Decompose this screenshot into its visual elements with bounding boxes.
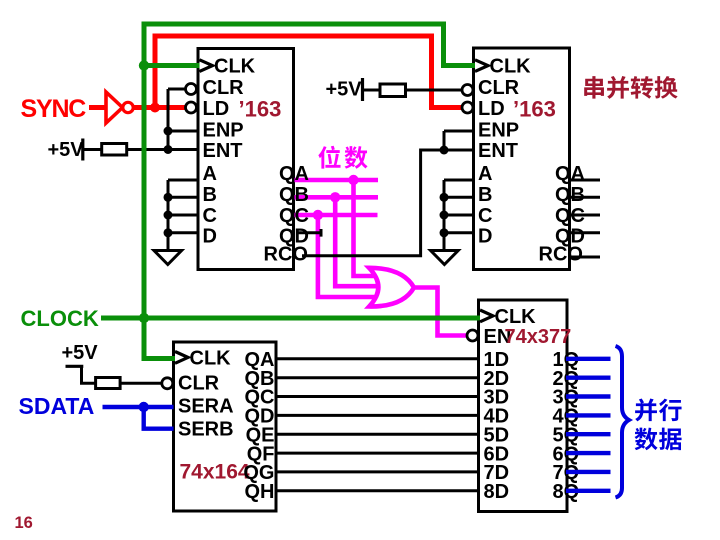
U4 pin 4D xyxy=(484,406,510,428)
wire U3 QF to U4 6D xyxy=(276,452,479,455)
wire U1 QD stub with tick xyxy=(296,229,321,237)
svg-text:QA: QA xyxy=(279,163,309,185)
U2 CLK wedge xyxy=(475,60,488,72)
node SYNC junction xyxy=(150,103,160,113)
U3 CLR bubble xyxy=(162,378,173,389)
wire U2 QD stub xyxy=(570,231,601,234)
wire U1 QB to OR gate xyxy=(295,197,381,286)
node U1 D junction xyxy=(164,228,173,237)
svg-text:CLR: CLR xyxy=(178,373,220,395)
wire R3 to U3 CLR xyxy=(120,382,162,385)
svg-text:QC: QC xyxy=(279,205,309,227)
wire SDATA branch to U3 SERB xyxy=(144,407,174,429)
power +5V tick 3 xyxy=(66,365,84,368)
U1 pin A xyxy=(203,163,217,185)
svg-text:CLK: CLK xyxy=(495,306,537,328)
U2 LD bubble xyxy=(462,102,473,113)
U4 pin 6Q label xyxy=(553,443,580,465)
svg-text:8D: 8D xyxy=(484,481,510,503)
wire R2 to U2 CLR xyxy=(406,89,463,92)
label +5V 1 xyxy=(48,139,85,161)
wire CLOCK drop to U3 CLK xyxy=(144,318,177,359)
svg-text:B: B xyxy=(478,184,492,206)
wire U2 QB stub xyxy=(570,196,601,199)
node U2 ENT junction xyxy=(440,146,449,155)
power +5V tick 1 xyxy=(81,139,84,161)
resistor R1 xyxy=(102,144,127,156)
U4 pin 2Q label xyxy=(553,368,580,390)
U2 pin QA xyxy=(555,163,585,185)
svg-text:SERA: SERA xyxy=(178,395,234,417)
resistor R3 xyxy=(96,378,121,389)
svg-text:LD: LD xyxy=(478,98,505,120)
wire U1 CLR to ENT vertical xyxy=(168,89,186,150)
U3 pin QD xyxy=(245,406,275,428)
U4 pin 1D xyxy=(484,349,510,371)
wire U3 QE to U4 5D xyxy=(276,433,479,436)
svg-text:16: 16 xyxy=(15,514,33,532)
U4 pin 3D xyxy=(484,387,510,409)
label SDATA xyxy=(19,393,95,419)
wire U4 4Q output xyxy=(566,413,611,417)
U4 pin 7Q label xyxy=(553,462,580,484)
node U1 C junction xyxy=(164,211,173,220)
svg-text:QB: QB xyxy=(555,184,585,206)
or-gate G1 xyxy=(369,268,414,307)
svg-text:ENP: ENP xyxy=(478,119,519,141)
wire +5V to resistor R2 xyxy=(363,89,381,92)
node CLOCK junction at U1 CLK xyxy=(139,60,149,70)
U2 pin C xyxy=(478,205,492,227)
wire +5V down to resistor R3 xyxy=(82,366,96,383)
U4 pin 7D xyxy=(484,462,510,484)
svg-text:ENT: ENT xyxy=(203,140,243,162)
U3 pin QE xyxy=(246,424,275,446)
U3 pin QF xyxy=(247,443,275,465)
U2 pin ENP xyxy=(478,119,519,141)
wire +5V to resistor R1 xyxy=(83,148,102,151)
wire U4 5Q output xyxy=(566,432,611,436)
U1 pin ENP xyxy=(203,119,244,141)
svg-text:74x377: 74x377 xyxy=(505,326,572,348)
svg-text:SDATA: SDATA xyxy=(19,393,95,419)
wire U4 1Q output xyxy=(566,357,611,361)
U2 pin QD xyxy=(555,225,585,247)
inverter U5 triangle xyxy=(106,92,123,123)
U1 value '163 xyxy=(239,96,282,121)
wire U1 QA to OR gate xyxy=(295,180,379,276)
register U4 74x377 box xyxy=(479,300,568,512)
wire U1 ENP stub xyxy=(168,130,198,133)
label chuanbingzhuanhuan serial-parallel xyxy=(584,76,677,99)
ground symbol 1 xyxy=(154,251,182,265)
U2 pin RCO xyxy=(539,244,583,266)
wire SYNC to U1 LD xyxy=(133,105,186,110)
U1 CLK wedge xyxy=(200,60,213,72)
label bingxing parallel xyxy=(635,398,681,421)
wire U1 RCO to U2 ENT xyxy=(302,150,474,256)
svg-text:SYNC: SYNC xyxy=(21,95,87,123)
wire U4 3Q output xyxy=(566,394,611,398)
U3 pin QA xyxy=(245,349,275,371)
wire U3 QD to U4 4D xyxy=(276,414,479,417)
brace parallel data xyxy=(616,346,630,498)
U1 pin D xyxy=(203,225,217,247)
U4 pin 4Q label xyxy=(553,406,580,428)
svg-text:QC: QC xyxy=(555,205,585,227)
label +5V 2 xyxy=(326,79,363,101)
label shuju data xyxy=(635,428,682,451)
node U2 B junction xyxy=(440,193,449,202)
label SYNC xyxy=(21,95,87,123)
U1 pin C xyxy=(203,205,217,227)
wire SDATA to U3 SERA xyxy=(103,405,174,409)
U2 CLR bubble xyxy=(462,85,473,96)
U4 pin 2D xyxy=(484,368,510,390)
wire U1 QC to OR gate xyxy=(295,215,378,297)
svg-text:D: D xyxy=(203,225,217,247)
power +5V tick 2 xyxy=(361,78,364,101)
U4 value 74x377 xyxy=(505,326,572,348)
resistor R2 xyxy=(380,84,406,97)
wire U4 7Q output xyxy=(566,470,611,474)
wire SYNC lead xyxy=(89,105,106,110)
label +5V 3 xyxy=(62,342,99,364)
U3 pin SERA xyxy=(178,395,234,417)
U3 value 74x164 xyxy=(180,461,250,484)
node U1 ENP junction xyxy=(164,127,173,136)
wire U2 ABCD vertical and stubs xyxy=(444,180,474,251)
U2 pin ENT xyxy=(478,140,518,162)
U1 pin QD xyxy=(279,225,309,247)
wire CLOCK loop to U2 CLK xyxy=(144,24,477,318)
U4 pin 5D xyxy=(484,424,510,446)
wire U3 QC to U4 3D xyxy=(276,395,479,398)
svg-text:’163: ’163 xyxy=(513,96,556,121)
node CLOCK junction at rail xyxy=(139,313,149,323)
node QB junction xyxy=(330,192,340,202)
U1 CLR bubble xyxy=(186,84,197,95)
U1 pin CLR xyxy=(203,77,245,99)
U1 pin LD xyxy=(203,98,230,120)
label CLOCK xyxy=(21,306,99,331)
svg-text:QA: QA xyxy=(555,163,585,185)
svg-text:RCO: RCO xyxy=(264,244,308,266)
wire U3 QB to U4 2D xyxy=(276,376,479,379)
svg-text:’163: ’163 xyxy=(239,96,282,121)
svg-text:ENP: ENP xyxy=(203,119,244,141)
U2 pin CLR xyxy=(478,77,520,99)
node U2 C junction xyxy=(440,211,449,220)
node U1 B junction xyxy=(164,193,173,202)
svg-text:A: A xyxy=(478,163,492,185)
wire U2 QA stub xyxy=(570,179,601,182)
U2 pin B xyxy=(478,184,492,206)
wire U3 QA to U4 1D xyxy=(276,357,479,360)
U3 pin QB xyxy=(245,368,275,390)
label weishu bit count xyxy=(318,146,367,169)
wire U4 2Q output xyxy=(566,376,611,380)
svg-text:+5V: +5V xyxy=(48,139,85,161)
svg-text:ENT: ENT xyxy=(478,140,518,162)
wire U2 QC stub xyxy=(570,214,601,217)
svg-text:QB: QB xyxy=(279,184,309,206)
U2 pin QC xyxy=(555,205,585,227)
svg-text:CLK: CLK xyxy=(214,56,256,78)
svg-text:SERB: SERB xyxy=(178,418,234,440)
U4 CLK wedge xyxy=(480,310,493,322)
U1 pin CLK xyxy=(214,56,256,78)
U2 pin D xyxy=(478,225,492,247)
svg-text:C: C xyxy=(203,205,217,227)
wire U4 8Q output xyxy=(566,489,611,493)
svg-text:LD: LD xyxy=(203,98,230,120)
wire G1 output to U4 EN xyxy=(414,288,467,336)
svg-text:CLK: CLK xyxy=(190,348,232,370)
counter U1 74x163 box xyxy=(198,49,294,270)
wire U1 ABCD vertical and stubs xyxy=(168,180,198,251)
svg-text:CLOCK: CLOCK xyxy=(21,306,99,331)
svg-text:74x164: 74x164 xyxy=(180,461,250,484)
wire U2 RCO stub xyxy=(570,256,601,259)
U1 pin QB xyxy=(279,184,309,206)
U1 pin B xyxy=(203,184,217,206)
U3 pin CLR xyxy=(178,373,220,395)
svg-text:C: C xyxy=(478,205,492,227)
svg-text:+5V: +5V xyxy=(326,79,363,101)
ground symbol 2 xyxy=(431,251,459,265)
node QC junction xyxy=(313,210,323,220)
U3 pin CLK xyxy=(190,348,232,370)
svg-text:D: D xyxy=(478,225,492,247)
svg-text:QH: QH xyxy=(245,481,275,503)
svg-text:CLK: CLK xyxy=(490,56,532,78)
U4 pin 5Q label xyxy=(553,424,580,446)
node U2 D junction xyxy=(440,228,449,237)
U1 pin QC xyxy=(279,205,309,227)
U4 pin EN xyxy=(484,326,512,348)
U1 pin RCO xyxy=(264,244,308,266)
label page 16 xyxy=(15,514,33,532)
wire SYNC loop to U2 LD xyxy=(155,36,462,108)
U2 pin LD xyxy=(478,98,505,120)
U3 pin QH xyxy=(245,481,275,503)
svg-text:A: A xyxy=(203,163,217,185)
U3 CLK wedge xyxy=(175,352,188,364)
U3 pin QG xyxy=(243,462,274,484)
U4 pin CLK xyxy=(495,306,537,328)
U4 pin 3Q label xyxy=(553,387,580,409)
U3 pin QC xyxy=(245,387,275,409)
U4 EN bubble xyxy=(467,330,478,341)
U4 pin 6D xyxy=(484,443,510,465)
node SDATA junction xyxy=(139,402,149,412)
U2 pin QB xyxy=(555,184,585,206)
inverter U5 bubble xyxy=(123,102,133,112)
wire CLOCK rail xyxy=(101,316,481,321)
U1 pin ENT xyxy=(203,140,243,162)
wire U3 QH to U4 8D xyxy=(276,489,479,492)
U2 pin CLK xyxy=(490,56,532,78)
wire U4 6Q output xyxy=(566,451,611,455)
svg-text:RCO: RCO xyxy=(539,244,583,266)
U2 value '163 xyxy=(513,96,556,121)
svg-text:B: B xyxy=(203,184,217,206)
wire R1 to U1 ENT xyxy=(127,148,198,151)
wire U2 ENP stub xyxy=(444,131,474,150)
U4 pin 8D xyxy=(484,481,510,503)
U4 pin 8Q label xyxy=(553,481,580,503)
node U1 ENT junction xyxy=(164,145,173,154)
U1 pin QA xyxy=(279,163,309,185)
U4 pin 1Q label xyxy=(553,349,580,371)
counter U2 74x163 box xyxy=(474,48,570,270)
wire CLOCK stub to U1 CLK xyxy=(144,63,201,68)
wire U3 QG to U4 7D xyxy=(276,470,479,473)
svg-text:+5V: +5V xyxy=(62,342,99,364)
U2 pin A xyxy=(478,163,492,185)
U3 pin SERB xyxy=(178,418,234,440)
node QA junction xyxy=(348,175,358,185)
shift register U3 74x164 box xyxy=(174,342,277,511)
U1 LD bubble xyxy=(186,102,197,113)
